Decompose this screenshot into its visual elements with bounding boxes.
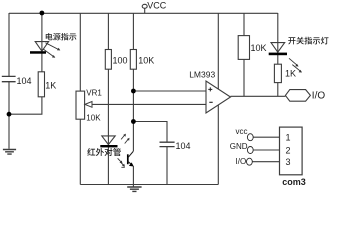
svg-text:vcc: vcc xyxy=(236,127,248,136)
power terminal VCC circle xyxy=(142,4,147,8)
op-amp U1 LM393 triangle xyxy=(206,81,231,113)
svg-text:VR1: VR1 xyxy=(86,89,102,98)
wire com3 pin 2 xyxy=(253,149,279,151)
svg-text:10K: 10K xyxy=(138,55,154,65)
wire VCC top rail xyxy=(9,12,278,14)
op-amp U1 minus input symbol xyxy=(209,101,212,103)
resistor R1 1K (power LED) xyxy=(38,72,44,97)
svg-text:1K: 1K xyxy=(45,80,56,90)
LED D1 power indicator triangle xyxy=(35,42,48,52)
svg-text:I/O: I/O xyxy=(312,91,326,102)
LED D1 cathode bar xyxy=(30,51,46,54)
ground left xyxy=(3,150,16,155)
wire VR1 bottom lead xyxy=(79,119,81,184)
resistor R3 10K (photo pull-up) xyxy=(130,50,136,70)
svg-text:1K: 1K xyxy=(285,69,296,79)
potentiometer VR1 10K body xyxy=(76,91,85,119)
capacitor C2 104 plates xyxy=(160,142,175,146)
LED D1 emission arrows xyxy=(44,43,61,58)
phototransistor Q1 emitter arrowhead xyxy=(129,162,134,166)
resistor R2 100 (IR LED drive) xyxy=(105,50,111,70)
op-amp U1 plus input symbol xyxy=(208,87,212,91)
svg-text:104: 104 xyxy=(17,76,32,86)
wire LM393 V+ pin from top rail xyxy=(217,13,219,89)
LED D3 emission arrows xyxy=(289,58,302,72)
phototransistor Q1 collector lead xyxy=(128,151,134,158)
wire pull-up resistor R4 10K bottom to output xyxy=(243,59,245,96)
wire resistor R3 10K bottom to node A xyxy=(132,69,134,91)
junction dot top rail / power LED branch xyxy=(40,11,45,16)
svg-text:1: 1 xyxy=(286,133,291,143)
resistor R4 10K (output pull-up) xyxy=(238,36,249,60)
svg-text:10K: 10K xyxy=(251,43,267,53)
wire node A to comparator non-inverting input xyxy=(133,90,206,92)
wire resistor R2 100 top lead xyxy=(107,13,109,50)
wire LM393 GND pin to bottom rail xyxy=(217,105,219,185)
wire middle ground stub xyxy=(132,185,134,187)
wire VR1 wiper to comparator inverting input xyxy=(92,103,207,105)
wire node B to capacitor C2 xyxy=(133,122,167,143)
svg-text:2: 2 xyxy=(286,145,291,155)
svg-text:com3: com3 xyxy=(282,177,306,187)
label power indicator 电源指示 xyxy=(46,33,77,40)
IR LED D2 cathode bar xyxy=(100,145,117,147)
resistor R5 1K (switch LED) xyxy=(274,64,281,82)
wire resistor R5 1K bottom to output xyxy=(277,83,279,97)
LED D3 switch indicator triangle xyxy=(271,43,285,53)
wire LM393 output to I/O port xyxy=(231,95,286,97)
wire 1K R1 bottom to left rail xyxy=(9,97,42,114)
svg-text:100: 100 xyxy=(113,55,128,65)
wire power LED branch through D1 to R1 xyxy=(41,13,43,72)
wire left branch down from top rail xyxy=(8,13,10,76)
wire VCC stem of VCC terminal xyxy=(144,8,146,13)
label IR pair 红外对管 xyxy=(87,148,121,156)
junction dot node B (C2 tap, collector) xyxy=(131,119,136,124)
connector com3 pin 1 circle xyxy=(247,134,253,141)
LED D3 cathode bar xyxy=(269,53,287,56)
svg-text:104: 104 xyxy=(176,141,191,151)
junction dot left rail / R1 return xyxy=(7,112,12,117)
phototransistor Q1 base bar xyxy=(127,154,129,164)
IR LED D2 triangle xyxy=(102,136,115,145)
svg-text:VCC: VCC xyxy=(147,0,167,10)
svg-text:I/O: I/O xyxy=(236,157,247,166)
wire com3 pin 1 xyxy=(253,136,279,138)
wire node A down to phototransistor collector xyxy=(132,91,134,151)
connector com3 body xyxy=(280,127,303,175)
ground middle xyxy=(127,187,141,191)
wire switch LED branch through D3 to R5 xyxy=(277,13,279,64)
svg-text:LM393: LM393 xyxy=(189,70,215,80)
wire capacitor C1 bottom lead xyxy=(8,82,10,149)
wire pull-up resistor R4 10K top lead xyxy=(243,13,245,36)
svg-text:10K: 10K xyxy=(86,113,101,122)
phototransistor incoming light arrows xyxy=(118,158,125,167)
svg-text:3: 3 xyxy=(286,157,291,167)
wire com3 pin 3 xyxy=(252,161,279,163)
I/O port hexagon xyxy=(285,90,310,102)
potentiometer VR1 wiper arrow xyxy=(85,102,92,108)
connector com3 pin 2 circle xyxy=(247,147,253,154)
wire resistor R2 bottom through IR LED to ground rail xyxy=(107,69,109,184)
wire capacitor C2 bottom lead xyxy=(166,147,168,185)
svg-text:GND: GND xyxy=(230,142,248,151)
wire phototransistor emitter to ground xyxy=(132,166,134,184)
junction dot node A (R3 bottom, + input) xyxy=(131,89,136,94)
connector com3 pin 3 circle xyxy=(247,158,253,165)
wire ground bottom rail xyxy=(80,184,218,186)
label switch indicator 开关指示灯 xyxy=(288,37,328,45)
capacitor C1 104 plates xyxy=(2,76,16,81)
phototransistor Q1 emitter lead xyxy=(128,161,133,165)
wire resistor R3 10K top lead xyxy=(132,13,134,50)
wire VR1 top lead xyxy=(79,13,81,91)
IR pair light arrows (upper) xyxy=(121,134,129,144)
